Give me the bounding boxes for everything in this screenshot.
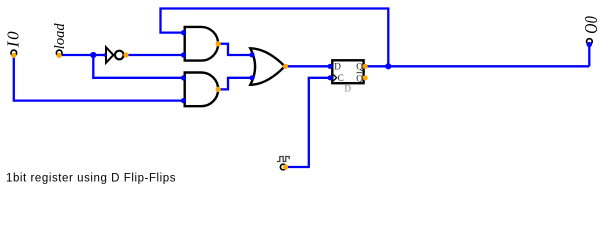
- svg-text:D: D: [334, 61, 341, 71]
- svg-text:I0: I0: [4, 30, 23, 49]
- svg-text:D: D: [344, 83, 351, 93]
- svg-text:1bit register using D Flip-Fli: 1bit register using D Flip-Flips: [6, 172, 176, 184]
- svg-text:C: C: [338, 73, 344, 83]
- svg-text:O0: O0: [583, 16, 602, 34]
- svg-text:Q: Q: [356, 73, 363, 83]
- svg-text:load: load: [52, 23, 68, 50]
- svg-text:Q: Q: [356, 61, 363, 71]
